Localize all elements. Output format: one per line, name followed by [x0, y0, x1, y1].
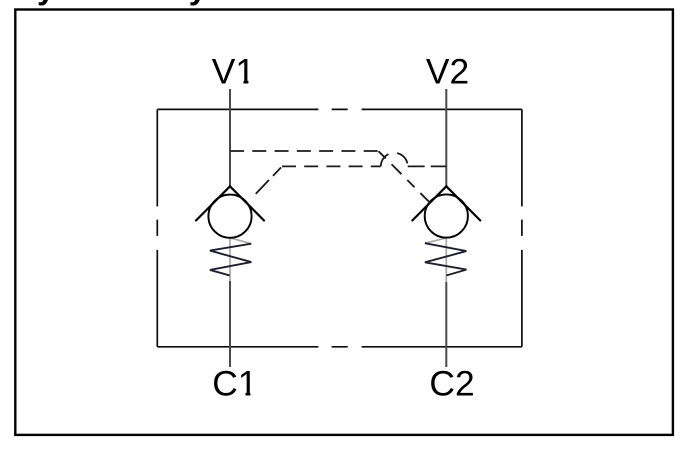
svg-text:V2: V2 [426, 52, 469, 92]
svg-text:C2: C2 [429, 364, 474, 404]
svg-text:C1: C1 [212, 364, 257, 404]
svg-text:V1: V1 [212, 51, 255, 91]
svg-text:Hydraulic symbol: Hydraulic symbol [14, 0, 285, 6]
